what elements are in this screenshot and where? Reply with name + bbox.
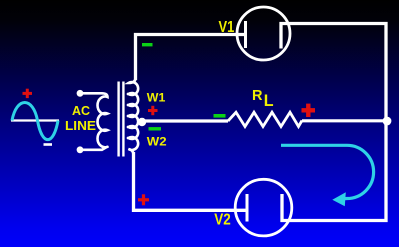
secondary bottom plus polarity	[138, 194, 149, 205]
transformer secondary winding	[129, 78, 139, 155]
svg-text:LINE: LINE	[65, 118, 96, 133]
winding W2 minus polarity	[149, 127, 162, 130]
tube V2 envelope	[235, 179, 292, 236]
tube V1 plate + wire: top-right corner, right bus, bottom wire, tube V2 plate	[281, 24, 386, 221]
wire: center tap to resistor	[140, 119, 228, 122]
AC source sine wave axis	[11, 119, 59, 121]
svg-text:R: R	[252, 88, 263, 104]
resistor minus polarity	[214, 114, 226, 118]
tube V1 envelope	[237, 7, 290, 60]
current arrow head	[332, 192, 346, 206]
winding W1 plus polarity	[148, 106, 158, 115]
secondary winding crossover ticks	[127, 94, 137, 138]
secondary top minus polarity	[142, 43, 153, 46]
transformer primary terminal dot bottom	[77, 146, 84, 153]
center tap node dot	[138, 118, 146, 126]
current direction arrow (cyan)	[281, 145, 374, 198]
AC source sine wave	[12, 103, 58, 140]
wire: secondary bottom to bottom-left corner and to V2 cathode	[134, 152, 246, 210]
svg-text:V1: V1	[219, 19, 235, 36]
svg-text:W2: W2	[147, 135, 167, 149]
wire: left bus top + top wire to V1 cathode	[136, 35, 245, 81]
svg-text:L: L	[264, 92, 274, 110]
svg-text:W1: W1	[147, 91, 166, 105]
svg-text:V2: V2	[214, 212, 231, 229]
transformer primary terminal dot top	[77, 90, 84, 97]
svg-text:AC: AC	[72, 103, 91, 118]
AC source plus polarity	[23, 89, 33, 98]
resistor plus polarity	[302, 104, 316, 117]
resistor RL zigzag	[228, 112, 302, 126]
wire: resistor to right bus junction	[302, 119, 387, 122]
transformer primary winding	[80, 93, 108, 150]
AC source minus polarity	[44, 143, 53, 146]
junction node dot	[383, 117, 392, 126]
transformer core	[117, 82, 119, 157]
tube V2 cathode	[246, 194, 249, 222]
tube V1 cathode	[244, 21, 247, 48]
